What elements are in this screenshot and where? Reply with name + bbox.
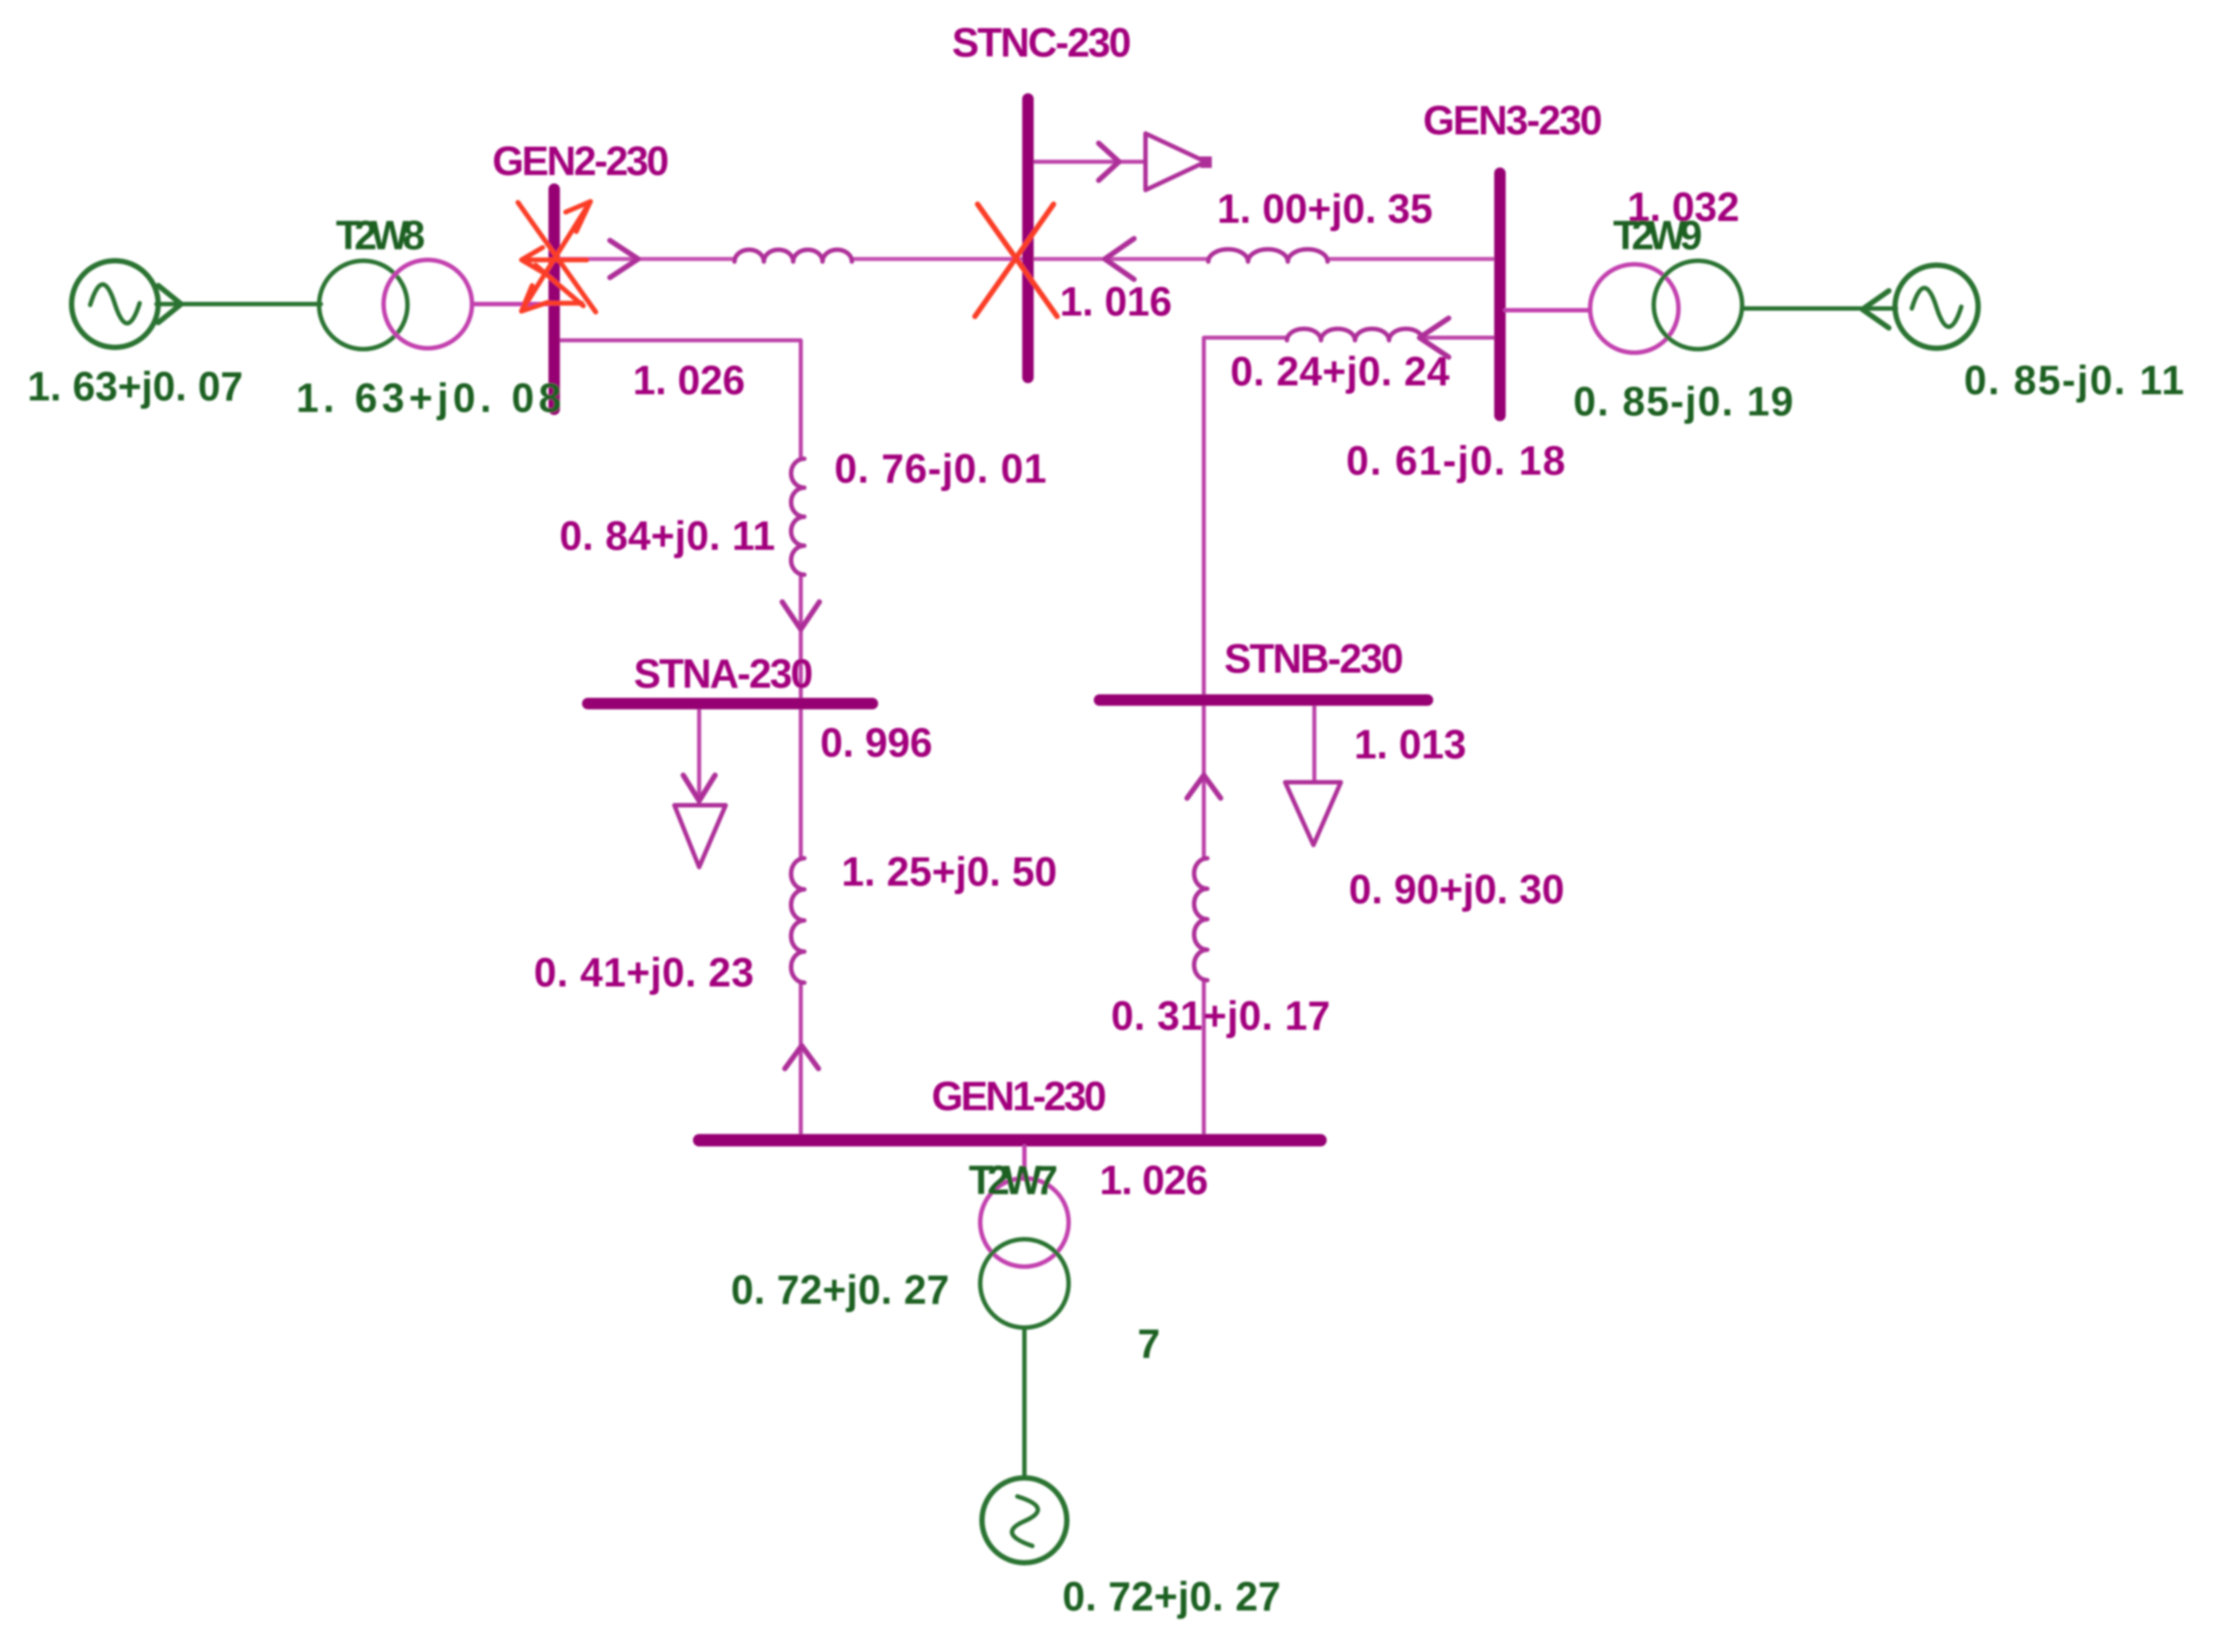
svg-text:0. 72+j0. 27: 0. 72+j0. 27 (731, 1267, 949, 1313)
svg-text:STNC-230: STNC-230 (952, 19, 1131, 65)
wire G2 to T2W8 (156, 302, 321, 307)
fault X at STNC bus (975, 204, 1057, 316)
load arrow chevron at STNA (683, 775, 715, 801)
transformer T2W9 (1590, 264, 1678, 353)
svg-text:1. 00+j0. 35: 1. 00+j0. 35 (1217, 186, 1433, 232)
svg-text:STNB-230: STNB-230 (1224, 636, 1404, 681)
wire arrow on GEN2-STNC line (610, 240, 638, 278)
load triangle tip square at STNC (1200, 156, 1212, 168)
load triangle at STNA (674, 805, 726, 867)
svg-text:GEN2-230: GEN2-230 (492, 138, 669, 184)
svg-text:0. 31+j0. 17: 0. 31+j0. 17 (1111, 993, 1330, 1039)
load triangle at STNC (1146, 133, 1206, 190)
bus GEN1-230 (699, 1134, 1321, 1146)
wire GEN2 bus to STNA bus with corner (554, 340, 801, 701)
load feeder at STNB bus (1313, 700, 1317, 780)
wire STNB bus to GEN1 bus (1202, 700, 1206, 1140)
svg-text:1. 63+j0. 07: 1. 63+j0. 07 (27, 363, 243, 409)
svg-text:0. 72+j0. 27: 0. 72+j0. 27 (1062, 1573, 1281, 1619)
bus GEN3-230 (1495, 173, 1506, 415)
wire STNA bus to GEN1 bus (799, 701, 803, 1140)
svg-text:0. 41+j0. 23: 0. 41+j0. 23 (534, 949, 754, 995)
svg-text:T2W8: T2W8 (336, 212, 425, 258)
load triangle at STNB (1285, 782, 1341, 845)
svg-text:STNA-230: STNA-230 (634, 651, 813, 697)
svg-text:0. 24+j0. 24: 0. 24+j0. 24 (1230, 348, 1450, 394)
wire arrow on STNC-GEN3 line pointing left (1105, 239, 1134, 279)
load arrow chevron at STNC (1099, 143, 1119, 180)
inductor coil on STNC-GEN3 line (1208, 249, 1328, 262)
wire T2W9 to G3 (1742, 307, 1896, 311)
svg-text:1. 013: 1. 013 (1354, 721, 1466, 767)
arrow from G2 (158, 285, 181, 323)
wire STNC bus to GEN3 bus (line segment) (1028, 257, 1500, 262)
generator G1 (bottom) (982, 1478, 1067, 1563)
svg-text:1. 026: 1. 026 (633, 357, 745, 403)
svg-text:1. 016: 1. 016 (1060, 278, 1172, 324)
generator G2 (left) (72, 261, 158, 347)
svg-text:1. 026: 1. 026 (1100, 1157, 1208, 1203)
inductor coil on GEN2-STNC line (735, 249, 852, 262)
svg-text:0. 61-j0. 18: 0. 61-j0. 18 (1346, 438, 1565, 483)
wire GEN3 bus to T2W9 (1505, 308, 1590, 313)
bus STNA-230 (588, 698, 872, 710)
svg-text:0. 85-j0. 19: 0. 85-j0. 19 (1573, 378, 1793, 424)
wire GEN2 bus to STNC bus (line segment) (554, 257, 1028, 262)
bus GEN2-230 (549, 189, 560, 409)
svg-text:GEN3-230: GEN3-230 (1423, 97, 1602, 143)
bus STNB-230 (1100, 695, 1427, 706)
wire T2W7 to G1 (1023, 1328, 1027, 1478)
svg-text:0. 76-j0. 01: 0. 76-j0. 01 (834, 445, 1047, 491)
inductor coil on GEN3-STNB line (1287, 329, 1423, 340)
wire arrow up toward STNB (1187, 775, 1221, 798)
wire T2W8 to GEN2 bus (472, 302, 549, 307)
wire arrow down into STNA (782, 602, 819, 629)
inductor coil on STNB-GEN1 line (1194, 858, 1207, 980)
svg-text:0. 90+j0. 30: 0. 90+j0. 30 (1349, 866, 1564, 912)
svg-text:T2W9: T2W9 (1613, 212, 1702, 258)
arrow toward T2W9 (1862, 291, 1889, 328)
inductor coil on STNA-GEN1 line (791, 858, 804, 983)
generator G3 (right) (1895, 265, 1978, 348)
svg-text:0. 85-j0. 11: 0. 85-j0. 11 (1964, 357, 2184, 403)
svg-text:1. 25+j0. 50: 1. 25+j0. 50 (841, 849, 1057, 895)
svg-text:0. 996: 0. 996 (820, 719, 932, 765)
load feeder at STNC bus (1033, 160, 1146, 164)
wire GEN1 bus to T2W7 (1023, 1146, 1027, 1179)
svg-text:0. 84+j0. 11: 0. 84+j0. 11 (559, 513, 775, 559)
svg-text:T2W7: T2W7 (969, 1157, 1058, 1203)
transformer T2W8 (319, 261, 407, 349)
svg-text:GEN1-230: GEN1-230 (932, 1073, 1107, 1119)
transformer T2W7 (980, 1178, 1069, 1267)
bus STNC-230 (1023, 99, 1034, 377)
fault marks at GEN2 bus (518, 202, 596, 312)
wire arrow on GEN3-STNB line pointing left (1420, 318, 1449, 357)
inductor coil on GEN2-STNA line (791, 459, 804, 575)
svg-text:7: 7 (1138, 1321, 1161, 1367)
load feeder at STNA bus (697, 701, 702, 798)
wire arrow up toward STNA (785, 1046, 818, 1069)
wire GEN3 bus to STNB bus with corner (1204, 338, 1500, 700)
